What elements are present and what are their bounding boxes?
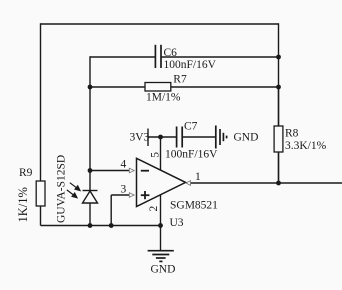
svg-text:GND: GND (151, 264, 176, 276)
svg-text:3: 3 (121, 184, 127, 196)
svg-text:2: 2 (148, 206, 160, 212)
svg-text:C6: C6 (164, 47, 178, 59)
svg-text:1: 1 (195, 171, 201, 183)
svg-text:GND: GND (234, 132, 259, 144)
svg-text:R7: R7 (173, 74, 187, 86)
svg-text:100nF/16V: 100nF/16V (164, 59, 217, 71)
svg-text:4: 4 (121, 159, 127, 171)
svg-text:3.3K/1%: 3.3K/1% (285, 140, 327, 152)
svg-text:5: 5 (150, 152, 162, 158)
svg-text:SGM8521: SGM8521 (170, 200, 218, 212)
svg-text:C7: C7 (184, 121, 198, 133)
svg-text:1M/1%: 1M/1% (146, 92, 181, 104)
svg-text:1K/1%: 1K/1% (16, 187, 30, 222)
svg-text:U3: U3 (170, 217, 184, 229)
svg-text:R8: R8 (285, 128, 299, 140)
svg-text:100nF/16V: 100nF/16V (165, 149, 218, 161)
svg-text:3V3: 3V3 (130, 132, 150, 144)
svg-text:R9: R9 (19, 167, 33, 179)
svg-text:GUVA-S12SD: GUVA-S12SD (56, 155, 68, 223)
